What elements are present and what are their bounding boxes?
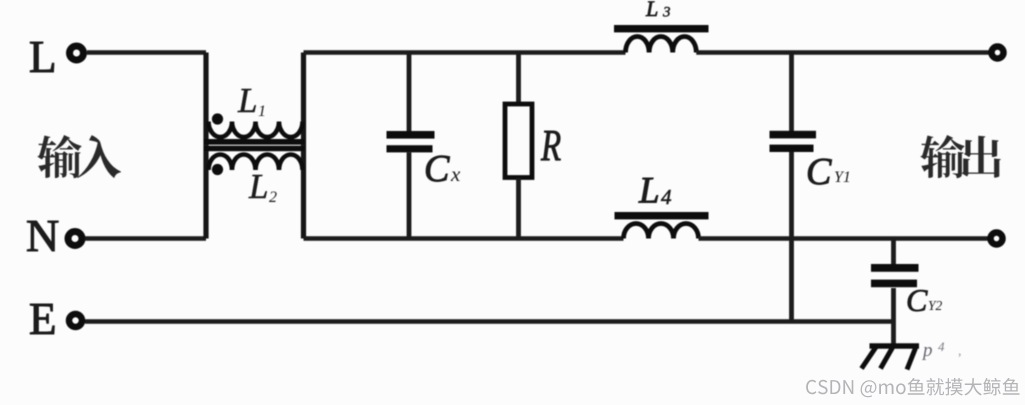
svg-text:4: 4 <box>938 339 945 354</box>
wire E rail <box>85 319 894 324</box>
ground symbol bar <box>870 343 920 348</box>
wire capacitor Cx bottom <box>407 153 412 239</box>
wire capacitor CY2 bottom to ground <box>891 288 896 346</box>
wire N terminal to choke <box>85 236 206 241</box>
ground symbol hatch 1 <box>862 347 877 369</box>
ground symbol hatch 3 <box>907 348 916 370</box>
resistor R body <box>505 104 532 178</box>
wire capacitor CY2 top <box>891 239 896 266</box>
terminal N <box>68 232 82 246</box>
svg-text:p: p <box>921 340 933 361</box>
wire choke right vertical <box>301 53 306 239</box>
svg-text:3: 3 <box>662 5 671 21</box>
svg-text:L: L <box>237 81 257 120</box>
label 输出 (output) <box>920 135 1001 178</box>
svg-text:C: C <box>806 151 832 193</box>
wire L terminal to choke <box>87 50 206 55</box>
watermark CSDN @mo鱼就摸大鲸鱼 <box>806 378 1019 397</box>
wire top rail right <box>696 50 989 55</box>
ground symbol hatch 2 <box>881 348 893 369</box>
wire resistor R bottom <box>516 178 521 239</box>
wire top rail middle <box>304 50 626 55</box>
svg-text:L: L <box>645 0 658 21</box>
svg-text:E: E <box>29 294 57 344</box>
svg-text:N: N <box>26 210 59 261</box>
svg-text:2: 2 <box>269 189 277 206</box>
capacitor Cx plates <box>387 131 435 139</box>
terminal OUT L <box>992 47 1004 59</box>
svg-text:L: L <box>638 171 660 212</box>
svg-text:x: x <box>450 162 461 186</box>
winding L2 of common-mode choke T1 <box>209 155 303 171</box>
polarity dot L1 <box>212 113 223 124</box>
svg-text:,: , <box>958 344 962 359</box>
terminal E <box>69 314 82 327</box>
svg-text:R: R <box>540 122 561 171</box>
wire capacitor CY1 top <box>789 53 794 132</box>
polarity dot L2 <box>212 164 223 175</box>
wire capacitor CY1 bottom to E rail <box>789 152 794 322</box>
capacitor CY2 plates <box>871 264 919 272</box>
svg-text:Y2: Y2 <box>928 298 943 313</box>
inductor L3 core bar <box>614 25 709 32</box>
winding L1 of common-mode choke T1 <box>209 122 303 137</box>
wire bottom rail right <box>699 236 989 241</box>
terminal L <box>70 46 84 60</box>
svg-text:1: 1 <box>258 103 266 120</box>
svg-text:C: C <box>424 148 450 190</box>
wire choke left vertical <box>203 53 208 239</box>
svg-text:L: L <box>248 167 268 206</box>
wire capacitor Cx top <box>407 53 412 132</box>
core of choke T1 <box>205 139 305 145</box>
inductor L4 core bar <box>615 212 709 219</box>
svg-text:4: 4 <box>661 185 672 209</box>
svg-text:Y1: Y1 <box>834 169 851 186</box>
label 输入 (input) <box>37 135 121 178</box>
wire resistor R top <box>516 53 521 105</box>
wire bottom rail middle <box>304 236 624 241</box>
svg-text:C: C <box>906 282 928 318</box>
capacitor CY1 plates <box>770 131 817 139</box>
inductor L3 winding <box>626 37 697 53</box>
inductor L4 winding <box>624 224 699 239</box>
terminal OUT N <box>991 233 1003 245</box>
svg-text:L: L <box>29 32 57 82</box>
